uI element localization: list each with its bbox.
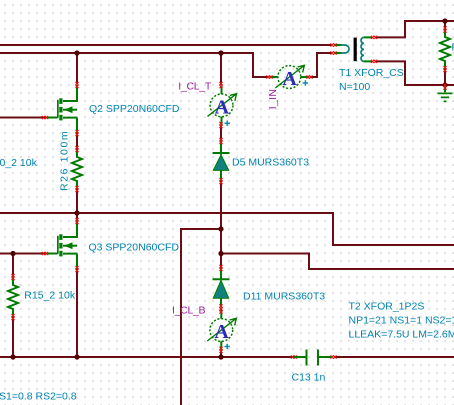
svg-text:I_IN: I_IN [267, 89, 279, 110]
svg-text:NP1=21 NS1=1 NS2=1: NP1=21 NS1=1 NS2=1 [349, 314, 454, 326]
svg-text:N=100: N=100 [339, 81, 370, 93]
svg-text:R26 100m: R26 100m [59, 130, 71, 191]
svg-text:R15_2 10k: R15_2 10k [24, 290, 76, 302]
svg-text:Q3 SPP20N60CFD: Q3 SPP20N60CFD [89, 242, 180, 254]
svg-text:I_CL_B: I_CL_B [172, 305, 206, 317]
svg-text:I_CL_T: I_CL_T [178, 81, 212, 93]
svg-text:LLEAK=7.5U LM=2.6M: LLEAK=7.5U LM=2.6M [349, 328, 454, 340]
svg-text:A: A [282, 68, 297, 90]
svg-text:T1 XFOR_CS: T1 XFOR_CS [339, 67, 404, 79]
svg-text:0_2 10k: 0_2 10k [0, 157, 38, 169]
svg-text:D5 MURS360T3: D5 MURS360T3 [232, 157, 309, 169]
svg-text:A: A [215, 96, 230, 118]
svg-text:S1=0.8 RS2=0.8: S1=0.8 RS2=0.8 [0, 391, 77, 403]
svg-text:A: A [214, 321, 229, 343]
svg-text:Q2 SPP20N60CFD: Q2 SPP20N60CFD [89, 103, 180, 115]
svg-text:T2 XFOR_1P2S: T2 XFOR_1P2S [349, 301, 425, 313]
svg-text:D11 MURS360T3: D11 MURS360T3 [243, 291, 325, 303]
svg-text:C13 1n: C13 1n [292, 372, 326, 384]
